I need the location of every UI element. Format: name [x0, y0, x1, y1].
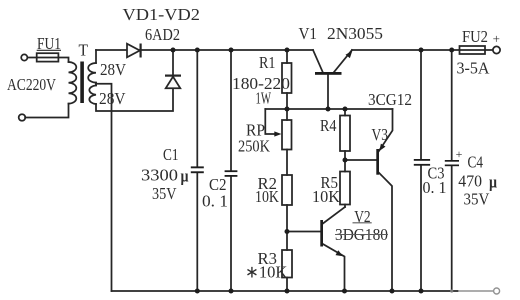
svg-text:28V: 28V	[99, 89, 126, 108]
svg-text:470: 470	[458, 171, 482, 191]
svg-text:6AD2: 6AD2	[145, 26, 180, 44]
svg-text:V3: V3	[372, 125, 389, 144]
svg-text:10K: 10K	[312, 187, 340, 206]
svg-text:µ: µ	[181, 167, 189, 186]
svg-text:3-5A: 3-5A	[457, 58, 490, 78]
svg-text:1W: 1W	[256, 89, 272, 108]
svg-text:µ: µ	[489, 173, 497, 192]
svg-text:T: T	[79, 40, 89, 60]
svg-text:3CG12: 3CG12	[368, 91, 412, 109]
svg-text:35V: 35V	[464, 191, 490, 209]
svg-text:+: +	[493, 31, 500, 46]
svg-text:∗10K: ∗10K	[245, 262, 287, 281]
svg-text:10K: 10K	[255, 188, 280, 207]
svg-text:R4: R4	[320, 117, 337, 135]
svg-text:AC220V: AC220V	[7, 76, 56, 95]
svg-text:FU2: FU2	[462, 28, 488, 46]
svg-text:3300: 3300	[141, 165, 178, 184]
svg-text:35V: 35V	[152, 185, 177, 203]
svg-text:0. 1: 0. 1	[202, 192, 228, 211]
svg-text:0. 1: 0. 1	[423, 178, 447, 198]
svg-text:+: +	[456, 147, 463, 161]
svg-text:R1: R1	[259, 54, 275, 72]
svg-text:V2: V2	[354, 207, 370, 226]
svg-text:250K: 250K	[238, 137, 271, 155]
svg-text:VD1-VD2: VD1-VD2	[123, 4, 200, 23]
svg-text:C1: C1	[163, 146, 178, 165]
svg-text:C4: C4	[468, 153, 484, 172]
svg-text:28V: 28V	[100, 61, 126, 79]
svg-text:V1: V1	[299, 25, 317, 43]
svg-text:2N3055: 2N3055	[327, 24, 383, 43]
